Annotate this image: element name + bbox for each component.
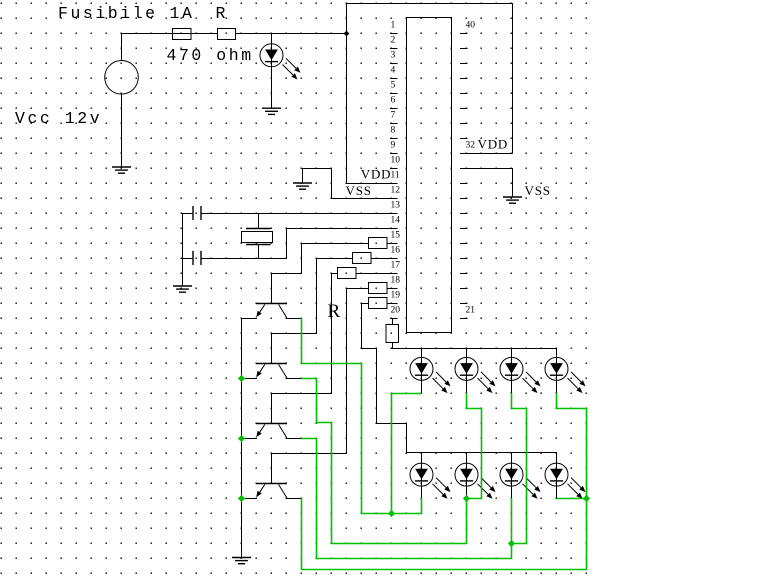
label 470 ohm xyxy=(167,46,254,65)
IC U1 left pin ticks 1-20 xyxy=(390,34,398,319)
junction node E1 xyxy=(238,375,245,382)
label VSS right xyxy=(525,183,551,198)
wire LED row2 col4 xyxy=(556,452,558,499)
wire D2 cathode green xyxy=(392,394,422,514)
wire pin31 VSS xyxy=(460,168,513,197)
wire LED row1 col4 xyxy=(556,348,558,394)
net Q1 collector green xyxy=(302,318,422,514)
crystal X1 xyxy=(242,213,273,258)
transistor Q2 xyxy=(241,364,302,379)
wire D4 cathode green xyxy=(512,393,527,544)
LED D3 xyxy=(455,357,496,393)
junction node E3 xyxy=(238,495,245,502)
net Q4 collector green xyxy=(302,498,587,570)
label VDD right xyxy=(478,136,509,151)
grid dots xyxy=(0,0,588,576)
wire D5 cathode green xyxy=(557,393,587,499)
wire pin20 to R7 xyxy=(392,318,394,325)
LED D2 xyxy=(410,357,451,393)
wire anode bus row 1 xyxy=(392,348,557,350)
junction node D xyxy=(583,495,590,502)
capacitor C2 xyxy=(182,251,201,265)
ground VSS right xyxy=(503,197,522,203)
LED D9 xyxy=(545,463,586,499)
fuse F1 Fusibile 1A xyxy=(173,29,192,40)
wire D3 cathode green xyxy=(467,393,482,499)
resistor R4 xyxy=(338,268,357,279)
IC U1 left pin numbers xyxy=(391,21,401,316)
label Vcc 12v xyxy=(15,109,102,128)
resistor R 470 ohm xyxy=(218,29,236,40)
junction node VDD tap xyxy=(344,31,350,37)
wire LED row1 col1 xyxy=(421,348,423,394)
junction node B xyxy=(463,495,470,502)
wire pin19 to R6 xyxy=(361,303,407,453)
wire D8 cathode green xyxy=(511,498,513,544)
wire pin13 net xyxy=(201,213,398,215)
wire LED D1 cathode xyxy=(271,67,273,108)
label R xyxy=(328,301,341,322)
wire D9 cathode green xyxy=(557,498,587,500)
wire LED row1 col3 xyxy=(511,348,513,394)
LED D8 xyxy=(500,463,541,499)
resistor R5 xyxy=(369,283,388,294)
ground emitter rail xyxy=(232,558,251,564)
ground VSS left xyxy=(293,183,312,189)
wire pin12 VSS xyxy=(302,168,398,199)
LED D6 xyxy=(410,463,451,499)
wire emitter rail xyxy=(241,318,243,558)
wire pin11 VDD xyxy=(346,183,398,185)
wire main 12V rail xyxy=(121,33,347,35)
ground caps xyxy=(173,286,192,292)
transistor Q1 xyxy=(241,304,302,319)
wire LED row2 col1 xyxy=(421,452,423,499)
label Fusibile 1A R xyxy=(58,4,228,23)
LED D1 xyxy=(260,44,301,80)
wire LED row1 col2 xyxy=(466,348,468,394)
resistor R6 xyxy=(369,298,388,309)
wire pin16 to R3 xyxy=(271,258,398,363)
ground for D1 xyxy=(262,108,281,114)
label VSS left xyxy=(346,183,372,198)
net Q2 collector green xyxy=(301,379,467,544)
wire anode bus row 2 xyxy=(406,452,557,454)
IC U1 right pin numbers xyxy=(466,21,476,316)
wire LED row2 col2 xyxy=(466,452,468,499)
resistor R3 xyxy=(353,253,372,264)
wire cap ground rail xyxy=(182,213,184,286)
transistor Q3 xyxy=(241,424,302,439)
LED D5 xyxy=(545,357,586,393)
transistor Q4 xyxy=(241,484,302,499)
resistor R2 xyxy=(369,238,388,249)
wire VDD loop top xyxy=(346,3,513,184)
LED D4 xyxy=(500,357,541,393)
wire pin32 VDD xyxy=(460,153,513,155)
IC U1 right pin ticks 40-21 xyxy=(460,34,468,319)
wire pin14 net xyxy=(201,228,398,259)
IC U1 body xyxy=(407,18,452,333)
junction node E2 xyxy=(238,435,245,442)
wire pin17 to R4 xyxy=(271,273,398,423)
wire R7 to anode bus row1 xyxy=(392,342,394,349)
wire LED D1 anode xyxy=(271,33,273,67)
capacitor C1 xyxy=(182,206,201,220)
resistor R7 xyxy=(386,325,399,343)
junction node A xyxy=(388,510,395,517)
voltage source V1 Vcc 12v xyxy=(105,33,139,167)
wire LED row2 col3 xyxy=(511,452,513,499)
wire pin15 to R2 xyxy=(271,243,398,303)
junction node C xyxy=(508,540,515,547)
net Q3 collector green xyxy=(301,439,512,559)
wire pin18 to R5 xyxy=(271,288,398,483)
label VDD left xyxy=(361,167,392,182)
LED D7 xyxy=(455,463,496,499)
ground for V1 xyxy=(112,167,131,173)
